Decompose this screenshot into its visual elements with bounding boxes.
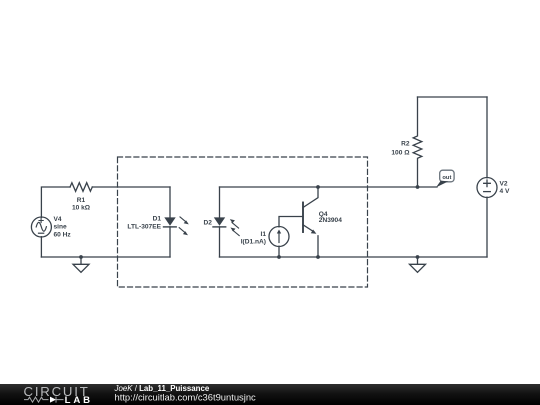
LED D1 bbox=[164, 217, 189, 235]
resistor R2 bbox=[413, 97, 422, 187]
wire top net loop2 bbox=[220, 186, 438, 188]
junction dot ground1 bbox=[79, 255, 83, 259]
footer title text bbox=[114, 384, 257, 403]
wire V4 top to R1 bbox=[41, 187, 70, 217]
wire R1 to D1 bbox=[92, 186, 170, 188]
resistor R1 bbox=[70, 183, 92, 192]
ground loop1 bbox=[73, 257, 89, 272]
svg-text:LTL-307EE: LTL-307EE bbox=[127, 224, 161, 231]
svg-text:60 Hz: 60 Hz bbox=[54, 232, 72, 239]
junction dot Q4 emitter bbox=[316, 255, 320, 259]
junction dot ground2 bbox=[416, 255, 420, 259]
ground loop2 bbox=[410, 257, 426, 272]
label R1 bbox=[72, 197, 91, 212]
label V2 value bbox=[500, 181, 510, 195]
wire I1 bottom bbox=[278, 246, 280, 257]
voltage source V4 bbox=[31, 217, 51, 237]
label V4 value bbox=[54, 216, 72, 239]
svg-text:2N3904: 2N3904 bbox=[319, 217, 342, 224]
svg-text:V4: V4 bbox=[54, 216, 62, 223]
svg-text:R2: R2 bbox=[401, 141, 410, 148]
label I1 bbox=[241, 231, 267, 245]
wire D1 cathode down bbox=[169, 227, 171, 257]
dashed box optocoupler bbox=[118, 157, 368, 287]
wire D2 cathode down bbox=[219, 227, 221, 257]
svg-text:R1: R1 bbox=[77, 197, 86, 204]
wire bottom net loop2 bbox=[220, 256, 488, 258]
footer bar bbox=[0, 384, 540, 405]
label D2 bbox=[203, 220, 212, 227]
label D1 bbox=[127, 216, 161, 231]
wire top R2 to V2 bbox=[418, 96, 488, 98]
wire D1 anode bbox=[169, 187, 171, 217]
junction dot Q4 collector bbox=[316, 185, 320, 189]
wire V2 top bbox=[486, 97, 488, 178]
label Q4 bbox=[319, 211, 342, 224]
current source I1 bbox=[269, 227, 289, 247]
svg-text:I1: I1 bbox=[261, 231, 267, 238]
svg-text:LAB: LAB bbox=[65, 395, 93, 405]
LED D2 (photodiode) bbox=[213, 217, 239, 235]
svg-text:10 kΩ: 10 kΩ bbox=[72, 205, 91, 212]
wire V2 bottom bbox=[486, 197, 488, 257]
svg-text:http://circuitlab.com/c36t9unt: http://circuitlab.com/c36t9untusjnc bbox=[115, 392, 257, 403]
wire V4 bottom bbox=[40, 237, 42, 257]
junction dot out node bbox=[416, 185, 420, 189]
transistor Q4 bbox=[303, 187, 318, 257]
junction dot I1 bottom bbox=[277, 255, 281, 259]
wire bottom loop1 bbox=[41, 256, 170, 258]
svg-text:sine: sine bbox=[54, 224, 68, 231]
svg-text:4 V: 4 V bbox=[500, 188, 510, 195]
node flag out bbox=[436, 170, 454, 187]
label R2 bbox=[391, 141, 410, 157]
wire D2 anode bbox=[219, 187, 221, 217]
svg-text:100 Ω: 100 Ω bbox=[391, 150, 410, 157]
svg-text:D1: D1 bbox=[153, 216, 162, 223]
svg-text:out: out bbox=[442, 175, 451, 181]
CircuitLab logo resistor-diode symbol bbox=[24, 397, 64, 403]
svg-text:V2: V2 bbox=[500, 181, 508, 188]
voltage source V2 bbox=[477, 178, 497, 198]
wire I1 top to Q4 base bbox=[279, 217, 303, 227]
svg-text:I(D1.nA): I(D1.nA) bbox=[241, 238, 266, 245]
svg-text:D2: D2 bbox=[203, 220, 212, 227]
